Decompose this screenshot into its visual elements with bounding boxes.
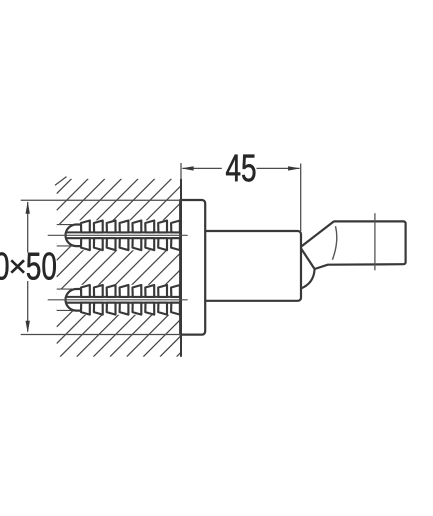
drill hole outline, anchor 2 bbox=[57, 289, 72, 310]
dimension 45: dimension line bbox=[183, 167, 300, 169]
cylinder body of fixture bbox=[204, 231, 301, 301]
dimension 45: right arrowhead bbox=[288, 166, 300, 170]
wall hatching bbox=[57, 179, 182, 357]
anchor 1 plug cap bbox=[66, 225, 82, 247]
anchor 1 core band bbox=[67, 232, 182, 238]
wall face line bbox=[180, 179, 182, 357]
anchor 2 plug cap bbox=[66, 289, 82, 311]
dimension 50: dimension line bbox=[27, 202, 29, 332]
anchor 2 teeth bbox=[81, 285, 180, 315]
anchor 1 teeth bbox=[81, 221, 180, 251]
tube joint line bbox=[374, 213, 376, 270]
anchor 1 centerline bbox=[48, 234, 188, 236]
drill hole outline, anchor 1 bbox=[57, 225, 72, 246]
dimension 45: text bbox=[226, 155, 255, 182]
anchor 2 drill-hole mask bbox=[57, 285, 182, 315]
dimension 50: text (clipped at left edge) bbox=[0, 252, 56, 279]
dimension 50: top arrowhead bbox=[26, 202, 30, 214]
stray short hatch line top-left bbox=[55, 177, 67, 186]
bend transition arc bbox=[332, 226, 336, 260]
angled arm tube and elbow bbox=[300, 213, 405, 289]
anchor 1 drill-hole mask bbox=[57, 220, 182, 250]
wall flange plate bbox=[180, 200, 205, 335]
dimension 50: bottom arrowhead bbox=[26, 321, 30, 333]
dimension 50: extension lines bbox=[21, 200, 181, 334]
dimension 45: left arrowhead bbox=[181, 166, 193, 170]
elbow tip line bbox=[300, 247, 314, 269]
anchor 2 centerline bbox=[48, 299, 188, 301]
anchor 2 core band bbox=[67, 297, 182, 303]
dimension 45: extension lines bbox=[181, 163, 301, 231]
